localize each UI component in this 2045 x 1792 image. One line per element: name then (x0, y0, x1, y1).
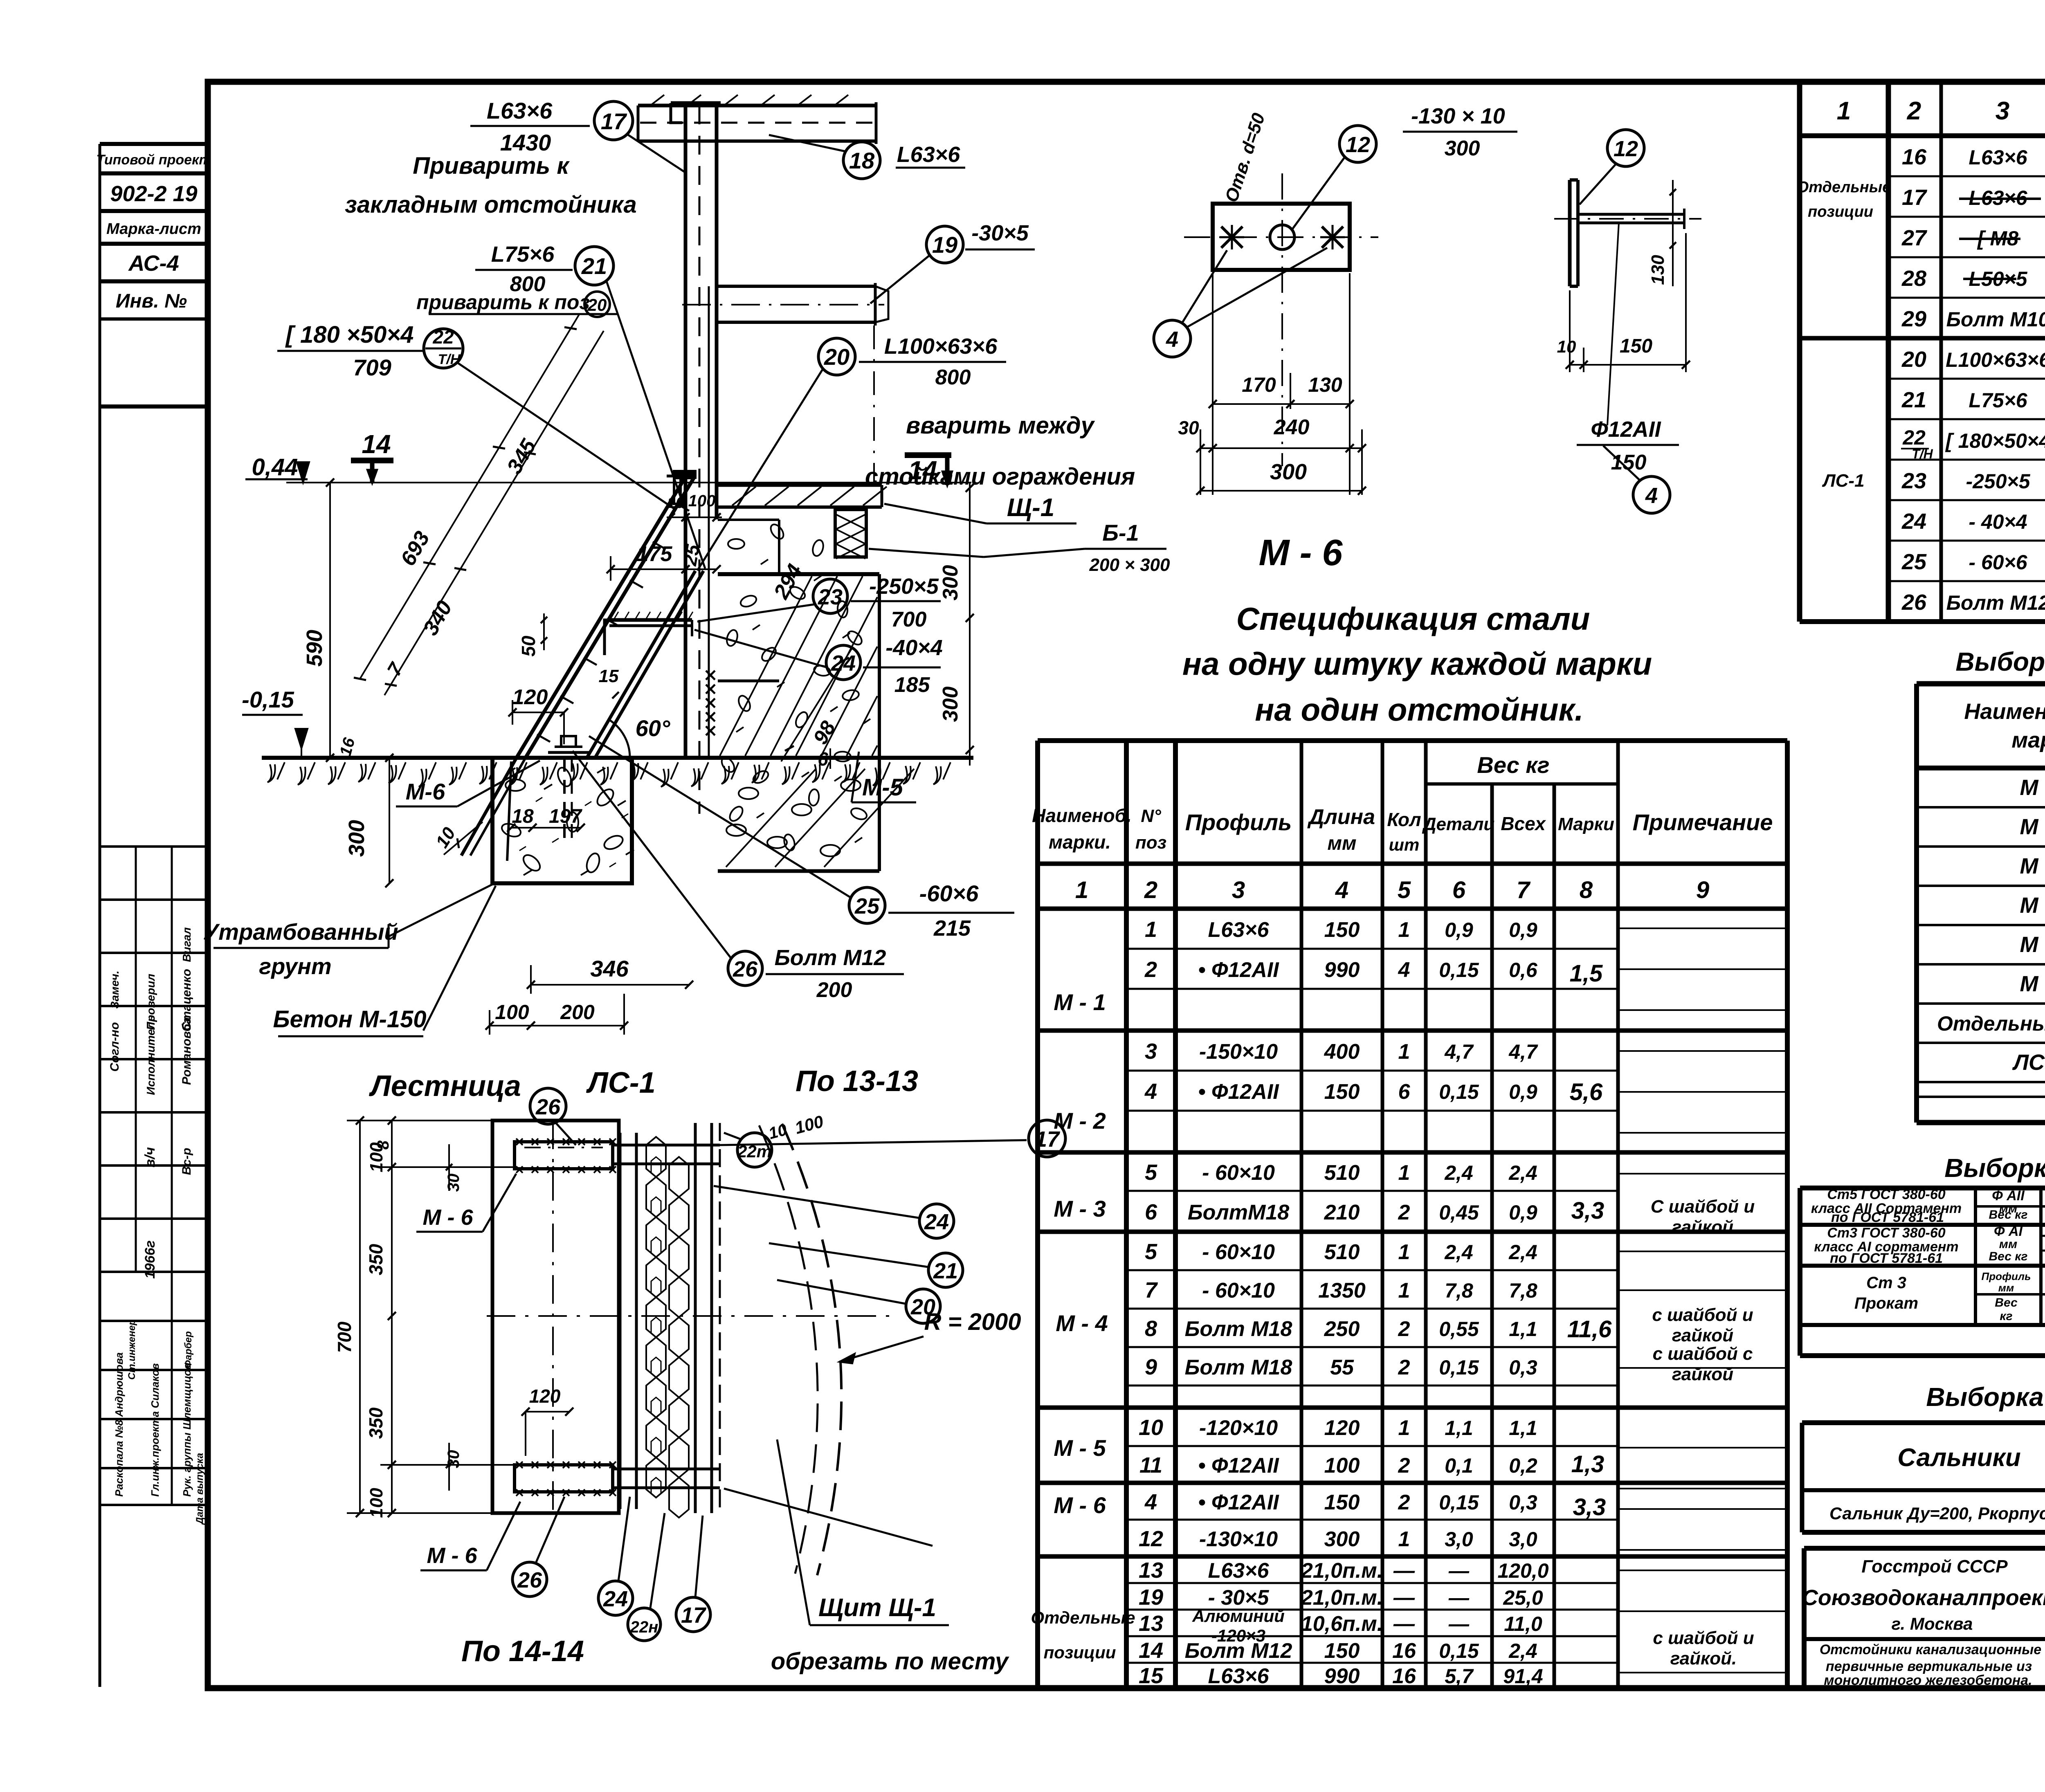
plan top callout 22т and dims (737, 1133, 772, 1167)
svg-text:2: 2 (1398, 1491, 1410, 1514)
svg-text:Ст5 ГОСТ 380-60: Ст5 ГОСТ 380-60 (1827, 1187, 1945, 1202)
svg-text:0,15: 0,15 (1439, 1356, 1479, 1379)
svg-text:кг: кг (2000, 1309, 2012, 1323)
svg-text:11: 11 (1139, 1453, 1162, 1478)
svg-text:100: 100 (688, 492, 716, 510)
dim 50 vertical at bracket (543, 613, 545, 650)
svg-text:Согл-но: Согл-но (108, 1022, 121, 1071)
svg-text:мм: мм (1999, 1237, 2017, 1251)
svg-text:-250×5: -250×5 (1966, 470, 2030, 493)
svg-text:1: 1 (1398, 1040, 1410, 1064)
svg-text:марки.: марки. (1049, 831, 1111, 853)
svg-text:25,0: 25,0 (1503, 1586, 1543, 1609)
svg-text:200: 200 (560, 1001, 595, 1024)
empty rows and Vsego (1917, 1096, 2045, 1098)
plan leader lines to right callouts (720, 1140, 1027, 1145)
strip signatures lower (100, 1111, 208, 1114)
svg-text:23: 23 (818, 585, 843, 609)
svg-text:0,9: 0,9 (1509, 1201, 1537, 1224)
svg-text:—: — (1448, 1559, 1470, 1582)
concrete diagonal hatch (720, 576, 812, 756)
svg-text:Болт М12: Болт М12 (775, 945, 886, 970)
svg-text:Гл.инж.проекта Силаков: Гл.инж.проекта Силаков (149, 1363, 161, 1497)
svg-text:2,4: 2,4 (1508, 1639, 1537, 1662)
svg-text:Щ-1: Щ-1 (1007, 494, 1054, 522)
svg-text:150: 150 (1620, 335, 1652, 357)
callout 24 -40x4 185 (826, 645, 861, 680)
svg-text:120: 120 (529, 1386, 561, 1407)
dim 98 rotated (781, 647, 853, 761)
svg-text:монолитного железобетона.: монолитного железобетона. (1824, 1673, 2032, 1688)
title block frame (1802, 1548, 1807, 1688)
svg-text:Отдельные: Отдельные (1797, 179, 1891, 196)
svg-text:• Ф12АII: • Ф12АII (1198, 1454, 1279, 1478)
svg-text:поз: поз (1135, 833, 1166, 853)
svg-text:3,0: 3,0 (1445, 1528, 1473, 1551)
svg-text:5: 5 (1398, 877, 1411, 903)
svg-text:Союзводоканалпроект: Союзводоканалпроект (1802, 1585, 2045, 1610)
svg-text:21,0п.м.: 21,0п.м. (1301, 1586, 1383, 1610)
svg-text:3: 3 (1145, 1039, 1157, 1064)
svg-text:Наименоб.: Наименоб. (1032, 805, 1132, 826)
svg-text:1966г: 1966г (142, 1240, 158, 1279)
block Ст3 Прокат (1800, 1323, 2045, 1327)
svg-text:- 60×10: - 60×10 (1202, 1279, 1275, 1302)
svg-text:4,7: 4,7 (1508, 1040, 1538, 1063)
svg-text:27: 27 (1901, 226, 1928, 250)
svg-text:22н: 22н (630, 1618, 658, 1636)
svg-text:4: 4 (1398, 958, 1410, 982)
svg-text:обрезать по месту: обрезать по месту (771, 1648, 1009, 1675)
dim 30 240 30 (1200, 447, 1362, 449)
svg-text:200 × 300: 200 × 300 (1089, 555, 1170, 575)
svg-text:25: 25 (854, 894, 880, 918)
ground line (262, 756, 973, 760)
svg-text:12: 12 (1614, 137, 1638, 161)
svg-text:Примечание: Примечание (1633, 809, 1773, 835)
svg-text:700: 700 (334, 1321, 355, 1353)
svg-text:240: 240 (1274, 415, 1310, 439)
svg-text:Вес кг: Вес кг (1477, 752, 1549, 778)
svg-text:Болт М18: Болт М18 (1185, 1356, 1292, 1379)
callout 25 -60x6 215 (849, 887, 885, 923)
svg-text:L63×6: L63×6 (1969, 146, 2027, 169)
strikethrough on rows 17 27 28 (corrections) (1959, 198, 2041, 200)
svg-text:91,4: 91,4 (1503, 1665, 1543, 1688)
svg-text:-130 × 10: -130 × 10 (1411, 104, 1505, 128)
svg-text:1350: 1350 (1318, 1279, 1366, 1302)
svg-text:130: 130 (1308, 373, 1342, 396)
plate center hole (1270, 225, 1294, 249)
svg-text:Марка-лист: Марка-лист (106, 220, 201, 238)
svg-text:10: 10 (1557, 337, 1576, 356)
svg-text:-250×5: -250×5 (869, 574, 939, 599)
svg-text:• Ф12АII: • Ф12АII (1198, 1080, 1279, 1104)
svg-text:0,55: 0,55 (1439, 1318, 1479, 1341)
M-6 side view bar (1568, 180, 1572, 286)
svg-text:210: 210 (1324, 1201, 1360, 1224)
svg-text:400: 400 (1324, 1040, 1360, 1064)
salniki table (1800, 1423, 1805, 1532)
svg-text:130: 130 (1648, 255, 1668, 285)
svg-text:по ГОСТ 5781-61: по ГОСТ 5781-61 (1830, 1251, 1943, 1266)
svg-text:Алюминий: Алюминий (1192, 1606, 1285, 1626)
svg-text:7,8: 7,8 (1445, 1279, 1473, 1302)
svg-text:-0,15: -0,15 (242, 687, 294, 712)
callout 20 label L100x63x6 800 (818, 338, 855, 375)
svg-text:5,7: 5,7 (1445, 1665, 1474, 1688)
svg-text:с шайбой и: с шайбой и (1652, 1305, 1753, 1325)
svg-text:2: 2 (1398, 1201, 1410, 1224)
svg-text:ЛС-1: ЛС-1 (586, 1067, 655, 1099)
svg-text:9: 9 (1696, 877, 1709, 903)
svg-text:16: 16 (1902, 145, 1927, 169)
svg-text:-150×10: -150×10 (1199, 1040, 1278, 1064)
svg-text:Кол: Кол (1387, 809, 1421, 830)
ground hatching (267, 764, 275, 782)
svg-text:510: 510 (1324, 1161, 1360, 1185)
svg-text:510: 510 (1324, 1240, 1360, 1264)
weld marks on wall face (706, 671, 715, 680)
svg-text:170: 170 (1242, 373, 1276, 396)
svg-text:1,5: 1,5 (1570, 960, 1603, 987)
foundation block concrete M-150 (492, 758, 632, 883)
svg-text:1: 1 (1145, 917, 1157, 942)
svg-text:М - 5: М - 5 (1054, 1435, 1106, 1461)
svg-text:2,4: 2,4 (1508, 1161, 1537, 1184)
svg-text:L75×6: L75×6 (1969, 389, 2027, 412)
svg-text:18: 18 (512, 806, 534, 827)
svg-text:закладным отстойника: закладным отстойника (345, 191, 636, 218)
svg-text:гайкой.: гайкой. (1670, 1648, 1737, 1668)
svg-text:21,0п.м.: 21,0п.м. (1301, 1559, 1383, 1583)
svg-text:29: 29 (1901, 307, 1926, 331)
side view rod (1578, 213, 1684, 216)
svg-text:приварить к поз: приварить к поз (416, 291, 590, 314)
svg-text:позиции: позиции (1044, 1643, 1116, 1662)
svg-text:7,8: 7,8 (1509, 1279, 1537, 1302)
svg-text:L63×6: L63×6 (1208, 1559, 1270, 1583)
svg-text:175: 175 (637, 542, 673, 566)
dim 120 at stringer base (512, 712, 564, 713)
plan dims 30 top bottom (448, 1144, 450, 1191)
svg-text:Ст3 ГОСТ 380-60: Ст3 ГОСТ 380-60 (1827, 1225, 1945, 1241)
svg-text:300: 300 (1270, 460, 1307, 484)
tank wall (684, 103, 688, 758)
svg-text:Сальник Ду=200, Ркорпуса=200: Сальник Ду=200, Ркорпуса=200 (1829, 1504, 2045, 1523)
svg-text:0,15: 0,15 (1439, 1639, 1479, 1662)
svg-text:Дата выпуска: Дата выпуска (194, 1453, 205, 1525)
svg-text:0,9: 0,9 (1509, 1080, 1537, 1103)
svg-text:мм: мм (1998, 1282, 2014, 1294)
svg-text:7: 7 (1517, 877, 1531, 903)
svg-text:БолтМ18: БолтМ18 (1188, 1201, 1289, 1224)
svg-text:[ 180×50×4: [ 180×50×4 (1945, 429, 2045, 452)
svg-text:800: 800 (935, 366, 971, 389)
svg-text:3: 3 (1232, 877, 1245, 903)
svg-text:—: — (1393, 1559, 1415, 1583)
svg-text:17: 17 (1035, 1127, 1061, 1152)
svg-text:200: 200 (816, 978, 852, 1002)
svg-text:0,6: 0,6 (1509, 959, 1538, 981)
svg-text:Раскопала №8 Андрюшова: Раскопала №8 Андрюшова (113, 1352, 125, 1497)
svg-text:L63×6: L63×6 (897, 142, 961, 167)
svg-text:—: — (1448, 1586, 1470, 1609)
svg-text:Болт М12: Болт М12 (1185, 1639, 1292, 1663)
table header Вес кг (1426, 782, 1618, 786)
svg-text:1,1: 1,1 (1509, 1318, 1537, 1341)
svg-text:Спецификация стали: Спецификация стали (1236, 601, 1590, 637)
dims 18 197 in foundation (511, 827, 581, 829)
plate centerlines (1281, 173, 1283, 466)
svg-text:990: 990 (1324, 958, 1360, 982)
svg-text:Б-1: Б-1 (1102, 520, 1139, 546)
svg-text:1430: 1430 (500, 130, 551, 155)
svg-text:19: 19 (932, 232, 957, 258)
svg-text:150: 150 (1324, 918, 1360, 942)
svg-text:0,3: 0,3 (1509, 1356, 1537, 1379)
steel summary table (1798, 1188, 1802, 1356)
anchor bolt head above ground (548, 751, 589, 754)
svg-text:—: — (1393, 1586, 1415, 1610)
walkway slab around level 0.44 (717, 483, 882, 487)
svg-text:18: 18 (849, 148, 875, 173)
svg-text:4: 4 (1645, 483, 1658, 508)
side dims 10 150 (1570, 364, 1686, 366)
plan stringer rails (619, 1133, 622, 1509)
svg-text:50: 50 (518, 636, 539, 657)
svg-text:Марки: Марки (1558, 814, 1614, 834)
svg-text:- 40×4: - 40×4 (1969, 510, 2027, 533)
svg-text:22т: 22т (737, 1142, 772, 1161)
svg-text:Ф АI: Ф АI (1994, 1224, 2023, 1239)
mid bracket M-4 step (609, 618, 692, 622)
stanchion centerline (873, 326, 875, 482)
plan bottom callouts (512, 1562, 547, 1597)
svg-text:28: 28 (1901, 266, 1926, 291)
svg-text:26: 26 (535, 1095, 561, 1119)
callout 12 right (1607, 130, 1644, 166)
svg-text:17: 17 (1902, 185, 1928, 210)
svg-text:22: 22 (432, 326, 454, 348)
svg-text:4: 4 (1166, 327, 1178, 352)
svg-text:13: 13 (1139, 1611, 1163, 1636)
svg-text:—: — (1448, 1612, 1470, 1635)
svg-text:N°: N° (1141, 806, 1161, 826)
svg-text:Приварить к: Приварить к (413, 153, 570, 179)
svg-text:300: 300 (1445, 137, 1480, 160)
svg-text:Вес: Вес (1995, 1296, 2018, 1309)
svg-text:100: 100 (495, 1001, 529, 1024)
svg-text:Вес кг: Вес кг (1989, 1208, 2028, 1222)
dims 100 200 (490, 1025, 624, 1026)
svg-text:- 60×6: - 60×6 (1969, 551, 2027, 574)
svg-text:300: 300 (939, 565, 962, 601)
svg-text:6: 6 (1452, 877, 1466, 903)
svg-text:17: 17 (681, 1603, 707, 1628)
svg-text:[ 180 ×50×4: [ 180 ×50×4 (285, 321, 414, 348)
svg-text:0,9: 0,9 (1445, 918, 1473, 941)
svg-text:Замеч.: Замеч. (108, 970, 121, 1008)
dim 170 130 under plate (1213, 403, 1350, 405)
svg-text:-40×4: -40×4 (885, 636, 943, 660)
svg-text:Всех: Всех (1501, 813, 1546, 834)
svg-text:Ст 3: Ст 3 (1866, 1274, 1906, 1292)
wall top cap (671, 101, 721, 105)
svg-text:4: 4 (1335, 877, 1348, 903)
svg-text:2: 2 (1144, 957, 1157, 982)
svg-text:100: 100 (1324, 1454, 1360, 1478)
svg-text:Болт М18: Болт М18 (1185, 1317, 1292, 1341)
svg-text:М - 2: М - 2 (1054, 1108, 1106, 1134)
strip signature block (100, 845, 208, 848)
svg-text:1: 1 (1398, 1240, 1410, 1264)
svg-text:Т/Н: Т/Н (438, 352, 461, 367)
svg-text:грунт: грунт (259, 953, 331, 979)
svg-text:Стаценко: Стаценко (180, 969, 193, 1031)
svg-text:L100×63×6: L100×63×6 (1946, 348, 2045, 371)
plan embed M-6 top (515, 1142, 613, 1169)
svg-text:Вигал: Вигал (180, 927, 193, 962)
svg-text:М - 1: М - 1 (1054, 989, 1106, 1015)
svg-text:20: 20 (587, 295, 607, 314)
svg-text:АС-4: АС-4 (128, 251, 179, 276)
svg-text:Отдельные: Отдельные (1031, 1608, 1135, 1627)
svg-text:Отдельные позиции: Отдельные позиции (1937, 1012, 2045, 1035)
svg-text:г. Москва: г. Москва (1892, 1614, 1973, 1633)
svg-text:Прокат: Прокат (1854, 1294, 1918, 1312)
svg-text:16: 16 (1392, 1639, 1416, 1663)
svg-text:мм: мм (1327, 833, 1356, 854)
aligned dims along incline (360, 314, 579, 679)
svg-text:300: 300 (1324, 1527, 1360, 1551)
svg-text:13: 13 (1139, 1558, 1163, 1583)
svg-text:марок: марок (2011, 728, 2045, 752)
dim 346 (531, 984, 689, 986)
svg-text:15: 15 (599, 666, 619, 686)
plan wall curve R=2000 dashed (782, 1124, 841, 1575)
svg-text:10,6п.м.: 10,6п.м. (1301, 1612, 1383, 1636)
svg-text:-130×10: -130×10 (1199, 1527, 1278, 1551)
svg-text:1: 1 (1075, 877, 1088, 903)
svg-text:на один отстойник.: на один отстойник. (1255, 692, 1583, 728)
svg-text:2: 2 (1144, 877, 1157, 903)
concrete step at wall, pos M-5 (718, 519, 779, 521)
svg-text:М - 6: М - 6 (422, 1205, 473, 1230)
ladder rungs ticks (537, 734, 550, 742)
callout 26 Болт М12 200 (728, 951, 762, 986)
svg-text:Выборка сальников на: Выборка сальников на 1 отстойник (1926, 1382, 2045, 1412)
svg-text:16: 16 (1392, 1664, 1416, 1688)
svg-text:24: 24 (603, 1587, 628, 1611)
central specification table (1035, 741, 1040, 1688)
svg-text:26: 26 (517, 1568, 542, 1592)
handrail pos19 -30x5 (717, 285, 875, 288)
svg-text:Вес кг: Вес кг (1989, 1250, 2028, 1263)
svg-text:М - 2: М - 2 (2020, 815, 2045, 839)
svg-text:26: 26 (733, 957, 758, 981)
svg-text:М - 6: М - 6 (1258, 532, 1343, 573)
svg-text:17: 17 (601, 108, 627, 134)
ladder stringer pos20 incline 60deg (517, 477, 685, 757)
svg-text:30: 30 (445, 1450, 463, 1469)
svg-text:55: 55 (1330, 1356, 1354, 1379)
svg-text:11,6: 11,6 (1567, 1316, 1612, 1343)
beam B-1 cross-hatched block (835, 510, 866, 557)
strip bottom block (100, 1320, 208, 1322)
svg-text:150: 150 (1324, 1080, 1360, 1104)
svg-text:22: 22 (1902, 426, 1926, 449)
dim 300 below ground (389, 758, 390, 883)
svg-text:Наименование: Наименование (1964, 699, 2045, 724)
svg-text:350: 350 (365, 1244, 387, 1275)
svg-text:15: 15 (1139, 1664, 1164, 1688)
plan dim 120 (526, 1411, 569, 1412)
svg-text:Вс-р: Вс-р (180, 1148, 193, 1175)
svg-text:1: 1 (1398, 918, 1410, 942)
svg-text:Фарбер: Фарбер (183, 1331, 194, 1368)
side dim 130 vertical (1672, 180, 1674, 286)
svg-text:0,44: 0,44 (252, 454, 298, 481)
svg-text:1: 1 (1398, 1161, 1410, 1185)
svg-text:5: 5 (1145, 1160, 1157, 1185)
svg-text:120: 120 (512, 685, 548, 709)
svg-text:по ГОСТ 5781-61: по ГОСТ 5781-61 (1831, 1210, 1944, 1225)
svg-text:с шайбой с: с шайбой с (1653, 1344, 1753, 1364)
svg-text:1,1: 1,1 (1509, 1417, 1537, 1439)
svg-text:20: 20 (1901, 347, 1926, 372)
plan centerlines horizontal (487, 1315, 896, 1317)
svg-text:0,2: 0,2 (1509, 1454, 1537, 1477)
svg-text:L63×6: L63×6 (1208, 918, 1270, 942)
side rod centerline (1554, 218, 1701, 220)
right dim 300 300 (969, 482, 971, 766)
svg-text:0,15: 0,15 (1439, 959, 1479, 981)
top-right steel positions table (1797, 82, 1802, 622)
svg-text:120: 120 (1324, 1416, 1360, 1440)
svg-text:гайкой: гайкой (1672, 1325, 1733, 1345)
svg-text:Бетон М-150: Бетон М-150 (273, 1006, 426, 1033)
svg-text:Профиль: Профиль (1185, 809, 1292, 835)
svg-text:12: 12 (1139, 1527, 1163, 1551)
svg-text:3,0: 3,0 (1509, 1528, 1537, 1551)
svg-text:вварить между: вварить между (906, 412, 1095, 439)
svg-text:С шайбой и: С шайбой и (1651, 1197, 1755, 1217)
svg-text:М-5: М-5 (862, 774, 903, 801)
svg-text:М - 5: М - 5 (2020, 932, 2045, 957)
brace pos21 incline (587, 571, 695, 757)
svg-text:700: 700 (891, 608, 927, 631)
svg-text:ЛС - 1: ЛС - 1 (2012, 1050, 2045, 1075)
svg-text:—: — (1393, 1612, 1415, 1636)
svg-text:Болт М10: Болт М10 (1946, 308, 2045, 331)
svg-text:0,3: 0,3 (1509, 1491, 1537, 1514)
svg-text:в/ч: в/ч (142, 1147, 158, 1168)
plan dashed line bottom right (724, 1489, 933, 1546)
svg-text:23: 23 (1901, 469, 1926, 493)
svg-text:1: 1 (1837, 97, 1851, 125)
svg-text:- 60×10: - 60×10 (1202, 1240, 1275, 1264)
svg-text:12: 12 (1346, 132, 1370, 157)
svg-text:Длина: Длина (1307, 805, 1375, 829)
svg-text:Ф АII: Ф АII (1992, 1188, 2025, 1204)
svg-text:М - 4: М - 4 (2020, 893, 2045, 918)
svg-text:2: 2 (1398, 1356, 1410, 1379)
svg-text:24: 24 (831, 651, 856, 676)
dim 10 100 at wall top (667, 516, 722, 518)
marks summary table (1914, 684, 1919, 1123)
svg-text:10: 10 (1139, 1415, 1163, 1440)
